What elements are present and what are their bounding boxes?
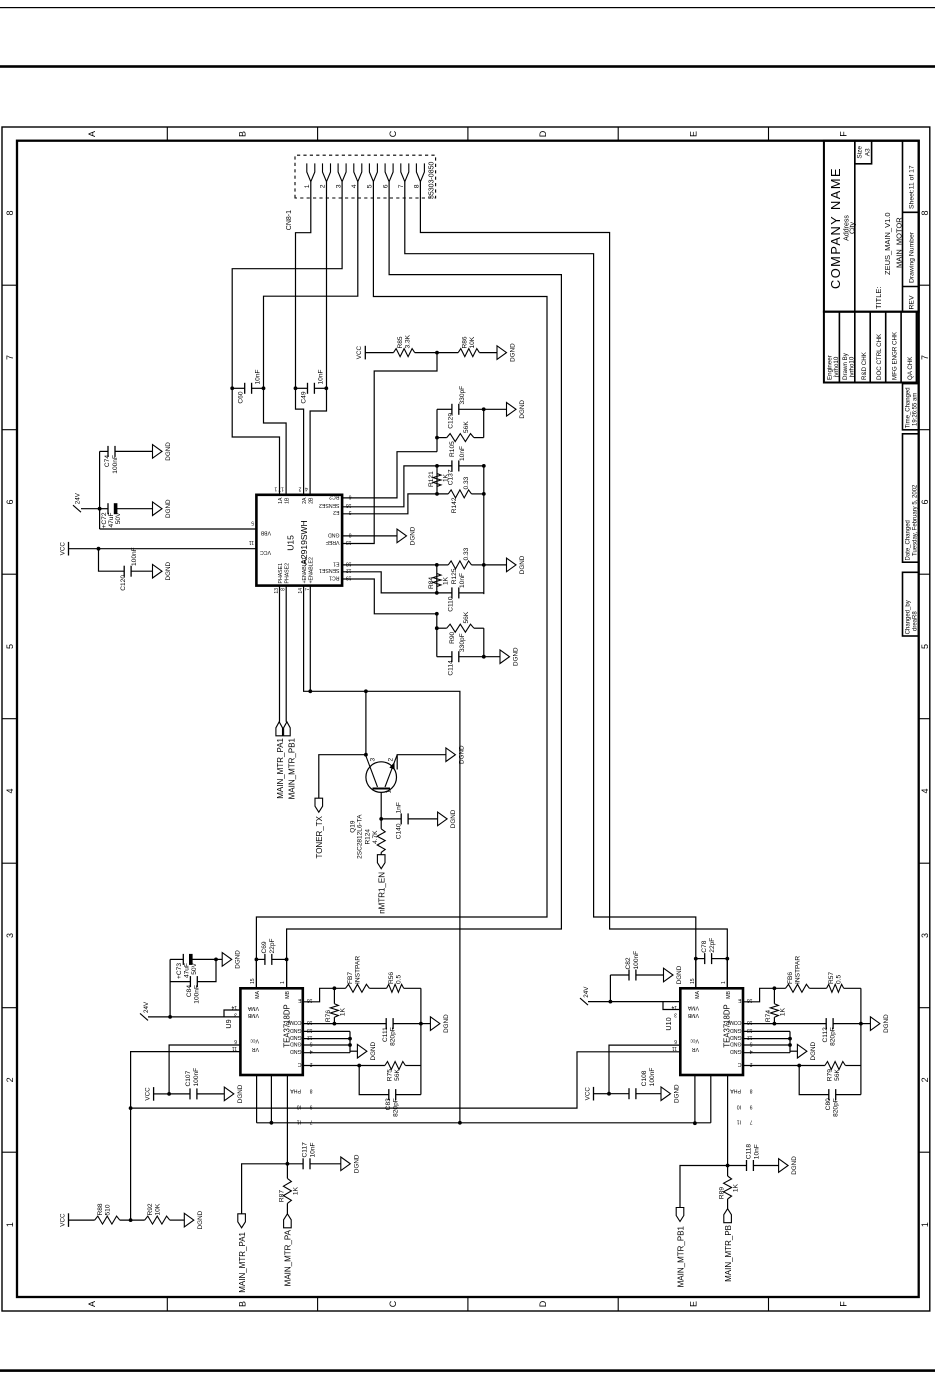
svg-text:C120: C120 bbox=[120, 575, 127, 591]
svg-text:3: 3 bbox=[370, 758, 377, 762]
wire VREF to divider junction bbox=[342, 353, 437, 544]
svg-text:Size: Size bbox=[857, 146, 864, 159]
svg-text:C107: C107 bbox=[185, 1070, 192, 1086]
svg-text:Changed_by: Changed_by bbox=[905, 600, 911, 634]
svg-text:C114: C114 bbox=[448, 660, 455, 676]
connector CN8-1 pin 2 bbox=[323, 163, 331, 181]
capacitor C114 330pF bbox=[437, 656, 452, 658]
title block size cell bbox=[855, 141, 872, 164]
title block main box bbox=[824, 141, 919, 312]
svg-text:VCC: VCC bbox=[59, 542, 66, 556]
svg-text:DGND: DGND bbox=[165, 499, 172, 518]
svg-text:0.5: 0.5 bbox=[396, 975, 403, 984]
ic U9 TEA3718DP box bbox=[240, 988, 302, 1075]
power 24V for U10 bbox=[580, 998, 588, 1005]
wire U9 C pin bbox=[303, 1065, 385, 1067]
svg-text:MA: MA bbox=[255, 990, 261, 998]
capacitor C110 10nF bbox=[459, 592, 484, 594]
page top rule thin bbox=[0, 7, 935, 8]
resistor R92 10K bbox=[145, 1216, 170, 1224]
svg-text:VMA: VMA bbox=[687, 1005, 699, 1011]
svg-text:DGND: DGND bbox=[510, 343, 517, 362]
connector CN8-1 pin 3 bbox=[338, 163, 346, 181]
svg-text:24V: 24V bbox=[143, 1001, 150, 1013]
wire RC2 to C129 R105 node bbox=[342, 452, 437, 498]
resistor R85 3.3K bbox=[394, 349, 415, 357]
svg-text:VCC: VCC bbox=[144, 1087, 151, 1101]
svg-text:1K: 1K bbox=[340, 1007, 347, 1016]
svg-text:DGND: DGND bbox=[237, 1084, 244, 1103]
ground DGND for C140 bbox=[438, 812, 448, 826]
wire sense rail 1 bbox=[483, 628, 485, 657]
svg-text:DGND: DGND bbox=[235, 950, 242, 969]
svg-text:GND: GND bbox=[730, 1048, 742, 1054]
wire R86 to ground bbox=[479, 352, 497, 354]
svg-text:C49: C49 bbox=[301, 391, 308, 403]
ground DGND for R92 bbox=[184, 1213, 194, 1227]
svg-text:100nF: 100nF bbox=[131, 547, 138, 566]
svg-text:VREF: VREF bbox=[326, 539, 340, 545]
svg-text:RC1: RC1 bbox=[329, 574, 339, 580]
resistor R86 10K bbox=[458, 349, 479, 357]
title block bottom strip bbox=[902, 141, 904, 312]
svg-text:0.33: 0.33 bbox=[463, 476, 470, 489]
svg-text:6: 6 bbox=[5, 499, 15, 504]
svg-text:10nF: 10nF bbox=[255, 369, 262, 384]
svg-text:E2: E2 bbox=[333, 509, 339, 515]
wire SENSE2 to C137 bbox=[342, 466, 452, 507]
border row ticks left bbox=[166, 1297, 168, 1311]
svg-text:1: 1 bbox=[280, 981, 286, 984]
svg-text:3: 3 bbox=[920, 933, 930, 938]
svg-text:PHASE2: PHASE2 bbox=[285, 563, 291, 584]
svg-text:R75: R75 bbox=[387, 1069, 394, 1081]
svg-text:D: D bbox=[538, 1300, 548, 1307]
svg-text:PHASE1: PHASE1 bbox=[278, 563, 284, 584]
svg-text:17: 17 bbox=[278, 486, 284, 492]
wire U9 PHA bbox=[286, 1075, 288, 1164]
svg-text:8: 8 bbox=[5, 210, 15, 215]
wire U9 E pin network bbox=[303, 988, 346, 1002]
wire RC1 to R90 C114 node bbox=[342, 579, 437, 614]
svg-text:Tuesday, February 5, 2002: Tuesday, February 5, 2002 bbox=[912, 484, 918, 556]
svg-text:100nF: 100nF bbox=[193, 1068, 200, 1087]
svg-text:A3: A3 bbox=[865, 148, 872, 156]
svg-text:100nF: 100nF bbox=[649, 1068, 656, 1087]
svg-text:MAIN_MTR_PB1: MAIN_MTR_PB1 bbox=[288, 737, 297, 799]
svg-text:B: B bbox=[238, 131, 248, 137]
ground DGND for C82 bbox=[664, 968, 674, 982]
svg-text:MAIN_MTR_PA1: MAIN_MTR_PA1 bbox=[238, 1231, 247, 1292]
svg-text:6: 6 bbox=[920, 499, 930, 504]
svg-text:MFG ENGR CHK: MFG ENGR CHK bbox=[892, 331, 899, 380]
svg-text:C: C bbox=[738, 1061, 742, 1067]
wire U10 C pin bbox=[743, 1065, 825, 1067]
svg-text:4: 4 bbox=[5, 788, 15, 793]
svg-text:C69: C69 bbox=[261, 941, 268, 953]
svg-text:24V: 24V bbox=[583, 986, 590, 998]
resistor R88 510 bbox=[95, 1216, 120, 1224]
page bottom rule bbox=[0, 1369, 935, 1372]
svg-text:C117: C117 bbox=[302, 1142, 309, 1158]
border column ticks bottom bbox=[919, 284, 930, 286]
svg-text:DGND: DGND bbox=[458, 745, 465, 764]
wire U9 comp rail bbox=[420, 988, 422, 1094]
wire CN8 pin3 to U15 1A bbox=[232, 182, 342, 495]
svg-text:B: B bbox=[238, 1301, 248, 1307]
capacitor C140 1nF bbox=[381, 818, 401, 820]
resistor R125 0.33 bbox=[437, 564, 448, 566]
title block time changed cell bbox=[903, 384, 919, 430]
svg-text:R121: R121 bbox=[428, 471, 435, 487]
svg-text:City: City bbox=[850, 221, 857, 234]
page top rule thick bbox=[0, 65, 935, 68]
svg-text:Vcc: Vcc bbox=[250, 1038, 259, 1044]
transistor Q19 2SC2812L6-TA bbox=[366, 762, 397, 793]
svg-text:C112: C112 bbox=[822, 1027, 829, 1043]
svg-text:TONER_TX: TONER_TX bbox=[315, 815, 324, 858]
svg-text:R125: R125 bbox=[451, 568, 458, 584]
svg-text:GND: GND bbox=[290, 1040, 302, 1046]
svg-text:R88: R88 bbox=[97, 1203, 104, 1215]
svg-text:DGND: DGND bbox=[513, 647, 520, 666]
net flag MAIN_MTR_PA1 at U15 PHASE1 bbox=[279, 586, 281, 722]
capacitor C74 100nF bbox=[100, 450, 109, 452]
svg-text:1: 1 bbox=[274, 486, 277, 492]
resistor R87 1K bbox=[286, 1164, 288, 1179]
svg-text:R79: R79 bbox=[827, 1069, 834, 1081]
svg-text:10nF: 10nF bbox=[754, 1144, 761, 1159]
wire CN8 pin1 to U15 2A bbox=[296, 182, 311, 495]
capacitor C73 47uF 50V polarized bbox=[169, 959, 171, 1017]
wire U10 I0 to bus bbox=[710, 1075, 712, 1123]
svg-text:11: 11 bbox=[672, 1045, 677, 1051]
svg-text:2: 2 bbox=[388, 758, 395, 762]
capacitor C120 100nF bbox=[99, 549, 125, 572]
svg-text:C111: C111 bbox=[382, 1027, 389, 1042]
wire sense rail 2 bbox=[483, 466, 485, 594]
power 24V for U9 bbox=[140, 1013, 148, 1020]
svg-text:dreaR8: dreaR8 bbox=[912, 611, 918, 631]
svg-text:15: 15 bbox=[690, 978, 696, 984]
svg-text:MAIN_MTR_PB: MAIN_MTR_PB bbox=[724, 1225, 733, 1282]
wire CN8 pin2 to U15 2B bbox=[310, 182, 326, 495]
svg-text:2: 2 bbox=[5, 1077, 15, 1082]
capacitor C107 100nF bbox=[169, 1093, 190, 1095]
svg-text:C: C bbox=[388, 130, 398, 137]
svg-text:DGND: DGND bbox=[519, 400, 526, 419]
svg-text:50V: 50V bbox=[115, 512, 122, 524]
svg-text:VR: VR bbox=[252, 1046, 259, 1052]
svg-text:ZEUS_MAIN_V1.0: ZEUS_MAIN_V1.0 bbox=[883, 212, 892, 275]
net flag TONER_TX bbox=[319, 755, 366, 799]
svg-text:E1: E1 bbox=[333, 560, 339, 566]
capacitor C69 22pF bbox=[255, 959, 257, 988]
svg-text:24V: 24V bbox=[75, 492, 82, 504]
svg-text:2: 2 bbox=[320, 184, 327, 188]
svg-text:PHA: PHA bbox=[730, 1088, 741, 1094]
svg-text:6: 6 bbox=[674, 1038, 677, 1044]
svg-text:GND: GND bbox=[328, 531, 340, 537]
wire R92 to ground bbox=[170, 1219, 185, 1221]
svg-text:R86: R86 bbox=[462, 336, 469, 348]
svg-text:15: 15 bbox=[250, 978, 256, 984]
svg-text:100nF: 100nF bbox=[633, 951, 640, 970]
svg-text:DGND: DGND bbox=[810, 1041, 817, 1060]
svg-text:A: A bbox=[87, 131, 97, 137]
ground DGND for C114 bbox=[484, 656, 500, 658]
svg-text:8: 8 bbox=[750, 1088, 753, 1094]
wire VR node bbox=[120, 1219, 145, 1221]
svg-text:U15: U15 bbox=[286, 535, 296, 551]
svg-text:VCC: VCC bbox=[260, 549, 271, 555]
svg-text:GND: GND bbox=[730, 1040, 742, 1046]
wire ENABLE1 ENABLE2 trunk bbox=[304, 586, 460, 1123]
svg-text:A: A bbox=[87, 1301, 97, 1307]
svg-text:10nF: 10nF bbox=[459, 446, 466, 461]
svg-text:510: 510 bbox=[105, 1204, 112, 1215]
svg-text:R124: R124 bbox=[365, 829, 372, 845]
svg-text:DGND: DGND bbox=[674, 1084, 681, 1103]
svg-text:2: 2 bbox=[298, 486, 301, 492]
svg-text:820pF: 820pF bbox=[833, 1098, 840, 1117]
capacitor C60 bbox=[232, 387, 245, 389]
power 24V for U15 bbox=[81, 508, 100, 510]
svg-text:3: 3 bbox=[5, 933, 15, 938]
net flag MAIN_MTR_PB bbox=[727, 1199, 729, 1209]
capacitor C78 22pF bbox=[695, 959, 697, 989]
wire VR to U9 bbox=[131, 1052, 241, 1221]
svg-text:Date_Changed: Date_Changed bbox=[905, 520, 911, 560]
svg-text:7: 7 bbox=[750, 1118, 753, 1124]
svg-text:C: C bbox=[388, 1300, 398, 1307]
svg-text:35303-0850: 35303-0850 bbox=[429, 162, 436, 199]
svg-text:1: 1 bbox=[5, 1222, 15, 1227]
svg-text:R57: R57 bbox=[828, 972, 835, 984]
ferrite bead FB7 INSTPAR bbox=[346, 984, 370, 992]
svg-text:VMA: VMA bbox=[247, 1005, 259, 1011]
svg-text:4: 4 bbox=[920, 788, 930, 793]
svg-text:7: 7 bbox=[920, 355, 930, 360]
svg-text:DGND: DGND bbox=[197, 1210, 204, 1229]
svg-text:R142: R142 bbox=[451, 497, 458, 513]
capacitor C112 820pF bbox=[833, 1023, 861, 1025]
svg-text:C82: C82 bbox=[625, 957, 632, 969]
svg-text:GND: GND bbox=[290, 1048, 302, 1054]
ground DGND for U9 comp rail bbox=[421, 1023, 431, 1025]
svg-text:E: E bbox=[688, 131, 698, 137]
svg-text:C108: C108 bbox=[641, 1070, 648, 1086]
svg-text:10nF: 10nF bbox=[310, 1142, 317, 1157]
svg-text:U10: U10 bbox=[664, 1017, 673, 1030]
svg-text:VCC: VCC bbox=[584, 1087, 591, 1101]
power VCC for VREF divider bbox=[364, 346, 366, 360]
capacitor C49 bbox=[296, 387, 308, 389]
wire R85 to R86 junction bbox=[415, 352, 459, 354]
svg-text:F: F bbox=[839, 131, 849, 137]
border column ticks top bbox=[2, 284, 17, 286]
svg-text:10nF: 10nF bbox=[318, 369, 325, 384]
wire Q19 emitter to ground bbox=[397, 755, 446, 770]
svg-text:VMB: VMB bbox=[687, 1012, 699, 1018]
svg-text:R76: R76 bbox=[325, 1010, 332, 1022]
svg-text:D: D bbox=[538, 130, 548, 137]
svg-text:+ENABLE2: +ENABLE2 bbox=[309, 557, 315, 584]
svg-text:MB: MB bbox=[285, 990, 291, 998]
svg-text:14: 14 bbox=[231, 1004, 237, 1010]
svg-text:Sheet:11 of 17: Sheet:11 of 17 bbox=[909, 165, 916, 209]
title block date changed cell bbox=[903, 434, 919, 562]
svg-text:MAIN_MTR_PA1: MAIN_MTR_PA1 bbox=[276, 737, 285, 798]
svg-text:7: 7 bbox=[5, 355, 15, 360]
svg-text:C74: C74 bbox=[104, 455, 111, 467]
svg-text:PHA: PHA bbox=[290, 1088, 301, 1094]
svg-text:R85: R85 bbox=[397, 336, 404, 348]
svg-text:1K: 1K bbox=[443, 576, 450, 585]
svg-text:I1: I1 bbox=[737, 1118, 741, 1124]
capacitor C80 820pF bbox=[799, 1066, 829, 1095]
connector CN8-1 pin 4 bbox=[354, 163, 362, 181]
wire R90 C114 node rail bbox=[436, 614, 438, 657]
svg-text:+ENABLE1: +ENABLE1 bbox=[302, 557, 308, 584]
wire U9 I1 to bus bbox=[256, 1075, 258, 1123]
svg-text:FB6: FB6 bbox=[787, 972, 794, 984]
ground DGND for U10 GND pins bbox=[790, 1050, 797, 1052]
svg-text:1: 1 bbox=[386, 790, 393, 794]
svg-text:GND: GND bbox=[730, 1034, 742, 1040]
svg-text:+C72: +C72 bbox=[101, 512, 108, 528]
resistor R121 1K bbox=[436, 466, 438, 494]
svg-text:47uF: 47uF bbox=[108, 513, 115, 528]
capacitor C82 100nF bbox=[609, 975, 611, 1002]
svg-text:7: 7 bbox=[310, 1118, 313, 1124]
svg-text:8: 8 bbox=[920, 210, 930, 215]
power VCC for U9 bbox=[153, 1087, 155, 1101]
ground DGND for U10 comp rail bbox=[861, 1023, 871, 1025]
ground DGND for C73 bbox=[214, 958, 218, 962]
wire R105 C129 bottom rail bbox=[483, 409, 485, 437]
capacitor C108 100nF bbox=[609, 1093, 629, 1095]
svg-text:R56: R56 bbox=[388, 972, 395, 984]
svg-text:FB7: FB7 bbox=[347, 972, 354, 984]
svg-text:SENSE1: SENSE1 bbox=[319, 567, 340, 573]
power VCC for U10 bbox=[593, 1087, 595, 1101]
resistor R84 1K bbox=[436, 565, 438, 593]
ground DGND for sense rail bbox=[484, 564, 507, 566]
wire CN8 pin8 to U10 MB bbox=[420, 182, 727, 989]
svg-text:10nF: 10nF bbox=[459, 573, 466, 588]
svg-text:COMPANY NAME: COMPANY NAME bbox=[828, 167, 843, 289]
wire U10 E pin network bbox=[743, 988, 786, 1002]
svg-text:INSTPAR: INSTPAR bbox=[355, 956, 362, 984]
ground DGND for C72 bbox=[153, 502, 163, 516]
svg-text:C78: C78 bbox=[701, 940, 708, 952]
wire U10 COMP line bbox=[743, 1023, 826, 1025]
resistor R124 4.7K bbox=[380, 819, 382, 829]
connector CN8-1 pin 8 bbox=[416, 163, 424, 181]
svg-text:C110: C110 bbox=[448, 596, 455, 612]
svg-text:C118: C118 bbox=[746, 1144, 753, 1160]
svg-text:R92: R92 bbox=[147, 1203, 154, 1215]
capacitor C84 100nF bbox=[170, 981, 190, 983]
ground DGND for U15 GND pin bbox=[342, 535, 397, 537]
svg-text:Q19: Q19 bbox=[350, 820, 357, 833]
svg-text:GND: GND bbox=[290, 1027, 302, 1033]
ground DGND for C74 bbox=[153, 445, 163, 459]
ground DGND for R86 bbox=[497, 346, 507, 360]
svg-text:22pF: 22pF bbox=[269, 938, 276, 953]
wire U10 PHA bbox=[727, 1075, 729, 1166]
resistor R74 1K bbox=[773, 988, 775, 1003]
svg-text:MA: MA bbox=[695, 990, 701, 998]
svg-text:C84: C84 bbox=[186, 985, 193, 997]
svg-text:1A: 1A bbox=[278, 497, 284, 504]
wire U9 COMP line bbox=[303, 1023, 386, 1025]
ic U15 A2919SWH box bbox=[256, 495, 342, 586]
svg-text:INSTPAR: INSTPAR bbox=[795, 956, 802, 984]
svg-text:Drawing Number: Drawing Number bbox=[909, 231, 916, 283]
resistor R89 1K bbox=[727, 1166, 729, 1177]
resistor R57 0.5 bbox=[809, 987, 826, 989]
svg-text:VR: VR bbox=[692, 1046, 699, 1052]
connector CN8-1 dashed box bbox=[295, 155, 436, 198]
wire Q19 collector to trunk bbox=[365, 691, 367, 756]
svg-text:6: 6 bbox=[382, 184, 389, 188]
capacitor C83 820pF bbox=[359, 1066, 389, 1095]
wire U9 GND pins bbox=[303, 1052, 350, 1054]
svg-text:MAIN_MTR_PA: MAIN_MTR_PA bbox=[284, 1229, 293, 1286]
border row ticks right bbox=[166, 127, 168, 141]
svg-text:DGND: DGND bbox=[370, 1041, 377, 1060]
net flag MAIN_MTR_PA bbox=[286, 1203, 288, 1213]
ground DGND for C120 bbox=[153, 564, 163, 578]
svg-text:56K: 56K bbox=[463, 611, 470, 623]
svg-text:TITLE:: TITLE: bbox=[874, 286, 883, 309]
svg-text:VCC: VCC bbox=[59, 1213, 66, 1227]
svg-text:56K: 56K bbox=[463, 421, 470, 433]
resistor R76 1K bbox=[333, 988, 335, 1003]
svg-text:10K: 10K bbox=[155, 1203, 162, 1215]
ground DGND for C129 bbox=[484, 408, 507, 410]
svg-text:1K: 1K bbox=[443, 473, 450, 482]
svg-text:330pF: 330pF bbox=[459, 633, 466, 652]
svg-text:1: 1 bbox=[920, 1222, 930, 1227]
svg-text:DGND: DGND bbox=[450, 809, 457, 828]
svg-text:R87: R87 bbox=[279, 1190, 286, 1202]
svg-text:11: 11 bbox=[249, 539, 254, 545]
title block changed by cell bbox=[903, 572, 919, 636]
connector CN8-1 pin 7 bbox=[401, 163, 409, 181]
svg-text:COMP: COMP bbox=[285, 1019, 301, 1025]
svg-text:I0: I0 bbox=[737, 1104, 741, 1110]
svg-text:6: 6 bbox=[234, 1038, 237, 1044]
power VCC for U15 bbox=[68, 542, 70, 556]
svg-text:DGND: DGND bbox=[676, 965, 683, 984]
title block engineer column bbox=[824, 312, 917, 383]
wire CN8 pin5 to U9 MA bbox=[256, 182, 547, 989]
svg-text:4: 4 bbox=[305, 486, 308, 492]
svg-text:2: 2 bbox=[920, 1077, 930, 1082]
capacitor C118 10nF bbox=[728, 1165, 747, 1167]
svg-text:Vcc: Vcc bbox=[690, 1038, 699, 1044]
ground DGND for U9 GND pins bbox=[350, 1050, 357, 1052]
ferrite bead FB6 INSTPAR bbox=[786, 984, 810, 992]
svg-text:C140: C140 bbox=[396, 823, 403, 839]
svg-text:47uF: 47uF bbox=[184, 963, 191, 978]
svg-text:U9: U9 bbox=[224, 1019, 233, 1028]
ground DGND for C108 bbox=[661, 1087, 671, 1101]
wire U10 comp rail bbox=[860, 988, 862, 1094]
